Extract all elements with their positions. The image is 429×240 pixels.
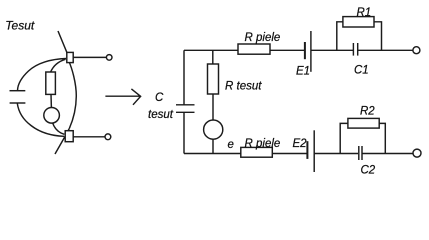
label C tesut (148, 92, 174, 121)
terminal top-right (413, 47, 420, 54)
svg-text:E1: E1 (296, 66, 310, 78)
tissue boundary arc lower-left (17, 103, 64, 136)
terminal bottom-left (105, 134, 111, 140)
wire R-branch middle (212, 94, 214, 120)
wire bottom rail (184, 153, 413, 155)
resistor R1 (343, 17, 374, 27)
resistor R2 (348, 118, 379, 128)
svg-text:tesut: tesut (148, 109, 174, 121)
tissue boundary arc right (69, 61, 77, 129)
wire left branch lower (183, 112, 185, 153)
svg-text:C1: C1 (354, 65, 369, 77)
battery E1 (305, 31, 311, 72)
membrane capacitor plates (10, 91, 26, 103)
wire top rail (184, 49, 413, 51)
electrode needle top (58, 31, 69, 61)
wire left branch upper (183, 50, 185, 105)
svg-text:R tesut: R tesut (225, 81, 262, 93)
wire source to bottom electrode (53, 123, 65, 135)
resistor R1 loop (337, 22, 382, 51)
svg-text:R1: R1 (357, 7, 372, 19)
electrode pad top (67, 52, 73, 62)
battery E2 (307, 130, 314, 172)
resistor R piele top (238, 44, 270, 54)
capacitor C tesut (176, 105, 195, 113)
resistor R piele bottom (241, 147, 272, 157)
wire bottom electrode to terminal (73, 136, 105, 138)
svg-text:R2: R2 (360, 106, 375, 118)
terminal bottom-right (413, 149, 421, 157)
wire R-branch lower (212, 139, 214, 153)
intracellular source (44, 108, 60, 124)
svg-text:e: e (228, 139, 234, 151)
source e (204, 120, 223, 139)
electrode needle bottom (55, 129, 69, 155)
wire top electrode to terminal (74, 56, 107, 58)
svg-text:C2: C2 (361, 165, 376, 177)
resistor R2 loop (340, 123, 385, 153)
arrow (105, 89, 140, 105)
resistor R tesut (208, 64, 219, 94)
svg-text:R piele: R piele (245, 138, 281, 150)
wire resistor top to top electrode (51, 59, 66, 72)
capacitor C2 (359, 146, 362, 160)
tissue boundary arc upper-left (18, 59, 67, 91)
wire resistor to source (50, 94, 52, 107)
svg-text:C: C (155, 92, 164, 104)
terminal top-left (106, 55, 112, 61)
wire R-branch upper (212, 50, 214, 64)
capacitor C1 (353, 43, 357, 56)
electrode pad bottom (65, 131, 73, 142)
svg-text:E2: E2 (293, 138, 308, 150)
intracellular resistor (46, 72, 56, 94)
svg-text:Tesut: Tesut (5, 19, 35, 33)
svg-text:R piele: R piele (245, 32, 281, 44)
